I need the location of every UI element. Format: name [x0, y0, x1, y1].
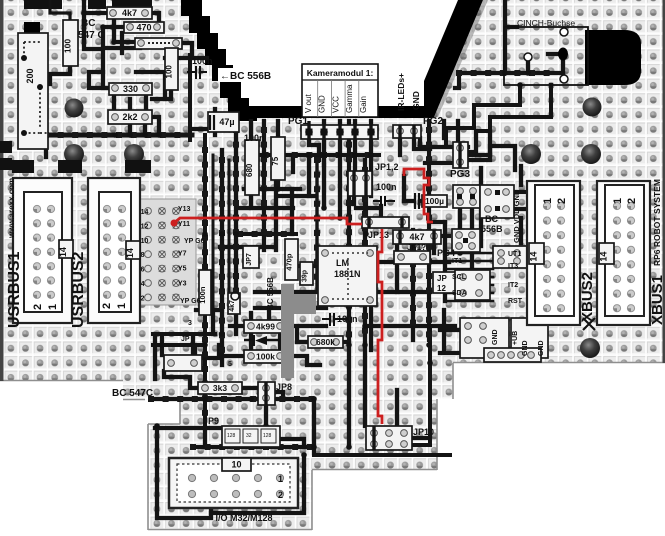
svg-text:JP8: JP8 — [276, 382, 292, 392]
svg-text:32: 32 — [246, 433, 252, 439]
svg-text:100n: 100n — [337, 314, 358, 324]
svg-text:IR-LEDs+: IR-LEDs+ — [396, 73, 406, 111]
svg-text:100µ: 100µ — [425, 196, 444, 206]
svg-text:2: 2 — [32, 304, 44, 310]
svg-text:IT3: IT3 — [508, 263, 518, 270]
svg-text:RST: RST — [508, 298, 523, 305]
svg-text:BC 547C: BC 547C — [112, 388, 153, 399]
svg-text:JP1,2: JP1,2 — [375, 162, 399, 172]
svg-text:3: 3 — [188, 320, 192, 327]
svg-text:Kameramodul 1:: Kameramodul 1: — [307, 68, 374, 78]
svg-text:YP G6: YP G6 — [184, 238, 205, 245]
svg-text:LM: LM — [336, 258, 349, 268]
svg-text:Y7: Y7 — [178, 251, 187, 258]
svg-text:CINCH-Buchse: CINCH-Buchse — [517, 18, 575, 28]
svg-text:200: 200 — [25, 68, 35, 83]
svg-text:2: 2 — [626, 198, 638, 204]
svg-text:IT1: IT1 — [452, 258, 462, 265]
svg-text:BC: BC — [485, 214, 498, 224]
svg-text:VCC: VCC — [331, 96, 340, 113]
svg-text:←BC 556B: ←BC 556B — [220, 71, 271, 82]
svg-text:1: 1 — [47, 304, 59, 310]
svg-text:1: 1 — [116, 303, 128, 309]
svg-text:GND: GND — [318, 95, 327, 113]
svg-text:100n: 100n — [192, 56, 213, 66]
svg-text:+UB: +UB — [512, 331, 519, 345]
svg-text:Gamma: Gamma — [345, 84, 354, 113]
svg-text:BC: BC — [81, 18, 95, 29]
svg-text:JP13: JP13 — [368, 230, 389, 240]
svg-text:75: 75 — [271, 156, 280, 165]
svg-text:2: 2 — [278, 490, 283, 500]
svg-text:Y11: Y11 — [178, 221, 190, 228]
svg-text:BC 556B: BC 556B — [266, 277, 275, 310]
svg-text:1: 1 — [612, 198, 624, 204]
svg-text:4k7: 4k7 — [122, 8, 137, 18]
svg-text:556B: 556B — [481, 224, 503, 234]
svg-text:10: 10 — [231, 460, 241, 470]
svg-text:12: 12 — [437, 284, 446, 293]
svg-text:330: 330 — [123, 84, 138, 94]
svg-text:UT1: UT1 — [508, 251, 521, 258]
svg-text:5: 5 — [228, 361, 232, 368]
svg-text:4k7: 4k7 — [229, 300, 236, 312]
svg-text:JP: JP — [437, 274, 447, 283]
svg-text:JP: JP — [181, 336, 190, 343]
svg-text:547 C: 547 C — [78, 30, 105, 41]
svg-text:14: 14 — [529, 252, 539, 262]
svg-text:39p: 39p — [302, 270, 309, 282]
svg-text:GND: GND — [411, 91, 421, 110]
svg-text:14: 14 — [125, 248, 135, 258]
svg-text:PG2: PG2 — [423, 116, 443, 127]
svg-text:4: 4 — [190, 340, 194, 347]
svg-text:100: 100 — [165, 65, 174, 79]
svg-text:128: 128 — [263, 433, 272, 439]
svg-text:100n: 100n — [244, 133, 265, 143]
svg-text:GND VDD GND: GND VDD GND — [512, 189, 521, 243]
svg-text:PG4: PG4 — [437, 248, 455, 258]
svg-text:1: 1 — [542, 198, 554, 204]
svg-text:www.arexx.com: www.arexx.com — [7, 178, 16, 239]
svg-text:680k: 680k — [316, 337, 335, 347]
svg-text:IT2: IT2 — [508, 282, 518, 289]
svg-text:4k7: 4k7 — [409, 232, 424, 242]
svg-text:V out: V out — [304, 94, 313, 113]
svg-text:SCL: SCL — [452, 274, 467, 281]
svg-text:1: 1 — [278, 474, 283, 484]
svg-text:14: 14 — [599, 252, 609, 262]
svg-text:XBUS1: XBUS1 — [649, 275, 665, 325]
svg-text:2: 2 — [556, 198, 568, 204]
svg-text:3k3: 3k3 — [213, 383, 227, 393]
svg-text:JP10: JP10 — [413, 427, 434, 437]
svg-text:SDA: SDA — [452, 290, 467, 297]
svg-text:100k: 100k — [256, 351, 275, 361]
svg-text:I/O M32/M128: I/O M32/M128 — [215, 513, 272, 523]
svg-text:128: 128 — [227, 433, 236, 439]
svg-text:YP G6: YP G6 — [180, 298, 201, 305]
svg-text:RP6 ROBOT SYSTEM: RP6 ROBOT SYSTEM — [652, 179, 662, 266]
svg-text:JP9: JP9 — [203, 416, 219, 426]
svg-text:GND: GND — [538, 340, 545, 356]
svg-text:GND: GND — [522, 340, 529, 356]
svg-text:14: 14 — [58, 247, 68, 257]
svg-text:100: 100 — [63, 39, 73, 53]
svg-text:Y3: Y3 — [178, 281, 187, 288]
svg-text:100n: 100n — [376, 182, 397, 192]
svg-text:GND: GND — [492, 329, 499, 345]
svg-text:47µ: 47µ — [219, 117, 234, 127]
svg-text:USRBUS2: USRBUS2 — [70, 251, 87, 328]
svg-text:470p: 470p — [285, 253, 294, 271]
svg-text:4k99: 4k99 — [256, 321, 275, 331]
svg-text:XBUS2: XBUS2 — [579, 272, 596, 322]
svg-text:2: 2 — [101, 303, 113, 309]
svg-text:Y5: Y5 — [178, 266, 187, 273]
svg-text:USRBUS1: USRBUS1 — [6, 251, 23, 328]
svg-text:Gain: Gain — [359, 96, 368, 113]
svg-text:2k2: 2k2 — [122, 112, 137, 122]
svg-text:JP7: JP7 — [246, 253, 253, 266]
svg-text:Y13: Y13 — [178, 206, 191, 213]
svg-text:PG3: PG3 — [450, 169, 470, 180]
svg-text:JP1?: JP1? — [407, 243, 426, 252]
svg-text:470: 470 — [136, 23, 151, 33]
svg-text:680: 680 — [245, 163, 254, 177]
